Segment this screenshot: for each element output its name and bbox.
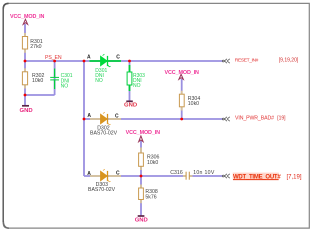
svg-text:GND: GND	[124, 102, 137, 108]
svg-text:NO: NO	[61, 84, 69, 90]
svg-text:C316: C316	[170, 170, 183, 176]
svg-text:RESET_IN#: RESET_IN#	[235, 58, 259, 64]
svg-text:VCC_MOD_IN: VCC_MOD_IN	[165, 70, 200, 76]
svg-text:[19]: [19]	[277, 116, 286, 122]
svg-text:VCC_MOD_IN: VCC_MOD_IN	[126, 130, 161, 136]
svg-text:A: A	[87, 113, 91, 119]
svg-text:10n 10V: 10n 10V	[193, 170, 215, 176]
svg-text:[9,19,20]: [9,19,20]	[279, 58, 299, 64]
svg-text:A: A	[87, 171, 91, 177]
svg-text:C: C	[115, 113, 119, 119]
svg-text:BAS70-02V: BAS70-02V	[90, 131, 118, 137]
svg-text:BAS70-02V: BAS70-02V	[88, 187, 116, 193]
svg-text:A: A	[87, 55, 91, 61]
svg-text:10k0: 10k0	[147, 160, 158, 166]
svg-text:NO: NO	[95, 78, 103, 84]
svg-text:10k0: 10k0	[188, 101, 199, 107]
svg-text:VCC_MOD_IN: VCC_MOD_IN	[10, 14, 45, 20]
svg-text:VIN_PWR_BAD#: VIN_PWR_BAD#	[235, 116, 274, 122]
svg-text:C: C	[116, 170, 120, 176]
svg-text:GND: GND	[135, 218, 148, 224]
svg-text:5k76: 5k76	[145, 194, 156, 200]
svg-text:GND: GND	[20, 108, 33, 114]
svg-text:C: C	[116, 55, 120, 61]
svg-text:10k0: 10k0	[32, 78, 43, 84]
svg-text:27k0: 27k0	[30, 44, 41, 50]
svg-text:PS_EN: PS_EN	[45, 55, 62, 61]
svg-text:NO: NO	[133, 83, 141, 89]
svg-text:[7,19]: [7,19]	[287, 175, 302, 181]
